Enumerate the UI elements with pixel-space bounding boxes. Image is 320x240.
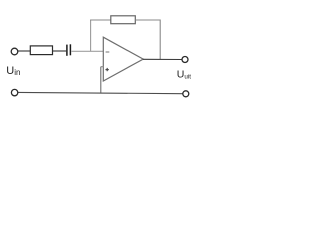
output terminal (right, signal) <box>182 57 188 63</box>
ground rail (bottom wire) <box>18 92 183 93</box>
minus sign (inverting input) <box>106 51 110 53</box>
wire R1 to capacitor <box>53 50 67 52</box>
resistor R2 (feedback) <box>111 16 136 24</box>
resistor R1 <box>30 46 52 55</box>
wire non-inverting input down to ground rail <box>100 67 102 93</box>
plus sign (non-inverting input) <box>106 69 109 71</box>
capacitor C1 <box>67 44 71 56</box>
wire feedback top left <box>90 19 111 21</box>
wire feedback down to output node <box>159 20 161 60</box>
wire feedback top right <box>135 19 160 21</box>
input terminal (left, signal) <box>11 48 18 55</box>
wire non-inverting input stub <box>101 66 104 68</box>
wire input terminal to R1 <box>18 50 30 52</box>
wire op-amp output to output terminal <box>143 58 182 60</box>
wire feedback tap up <box>90 20 92 52</box>
input terminal (left, ground) <box>11 89 17 95</box>
output terminal (right, ground) <box>183 91 189 97</box>
op-amp U1 <box>103 37 143 81</box>
wire capacitor to op-amp inverting input <box>71 50 103 52</box>
